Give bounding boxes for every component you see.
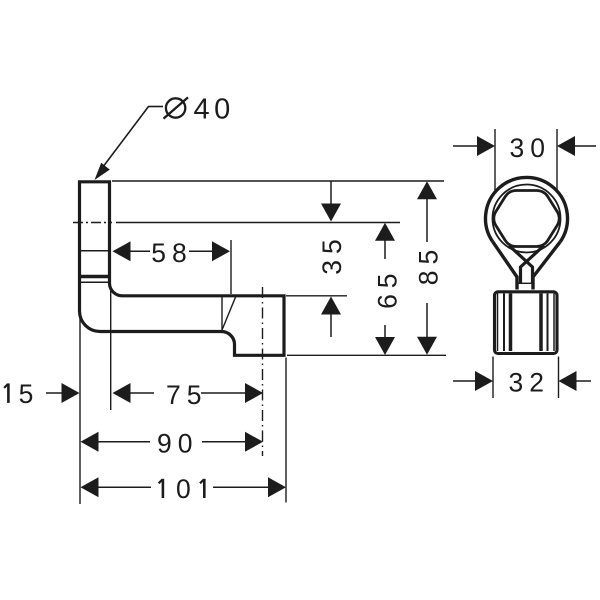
svg-text:5: 5 <box>19 379 34 409</box>
svg-text:0: 0 <box>176 474 191 504</box>
svg-text:32: 32 <box>508 368 549 398</box>
svg-text:85: 85 <box>414 244 444 285</box>
svg-text:65: 65 <box>373 267 403 308</box>
svg-text:35: 35 <box>317 233 347 274</box>
svg-text:30: 30 <box>510 133 551 163</box>
svg-text:40: 40 <box>194 94 235 126</box>
svg-text:90: 90 <box>157 429 198 459</box>
svg-text:58: 58 <box>151 238 192 268</box>
svg-text:75: 75 <box>166 380 207 410</box>
